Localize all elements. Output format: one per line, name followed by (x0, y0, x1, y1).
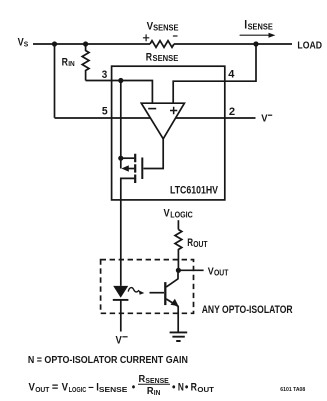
transistor M1 body stub (127, 168, 134, 170)
optical coupling squiggle (128, 288, 139, 292)
svg-text:SENSE: SENSE (99, 385, 128, 394)
svg-text:LOGIC: LOGIC (69, 385, 87, 394)
svg-text:•: • (185, 382, 189, 394)
wire VLOGIC lead (177, 220, 179, 229)
op-amp U1 triangle (141, 103, 184, 139)
svg-text:LTC6101HV: LTC6101HV (170, 185, 218, 197)
wire LED cathode to V- (120, 300, 122, 332)
wire left rail from VS node down to V- rail (54, 44, 56, 118)
svg-text:6101 TA08: 6101 TA08 (280, 387, 306, 393)
LED D1 cathode bar (113, 299, 129, 301)
svg-text:R: R (191, 382, 197, 394)
wire op-amp output to MOSFET gate (144, 138, 164, 169)
wire VOUT (178, 269, 203, 271)
wire top rail from VS to RSENSE (33, 43, 150, 45)
svg-text:2: 2 (229, 106, 235, 118)
svg-text:V: V (164, 208, 171, 220)
transistor M1 drain stub (121, 157, 134, 159)
current arrow ISENSE line (240, 35, 270, 36)
svg-text:N: N (178, 382, 184, 394)
junction dot ISENSE/pin4 (253, 41, 258, 46)
ground (170, 332, 188, 341)
polarity plus RSENSE (143, 34, 149, 41)
op-amp plus sign (170, 107, 177, 114)
svg-text:•: • (172, 382, 176, 394)
svg-text:IN: IN (68, 59, 75, 68)
transistor M1 body arrow (121, 165, 128, 171)
svg-text:5: 5 (102, 105, 108, 117)
svg-text:R: R (187, 237, 193, 249)
resistor RSENSE (150, 41, 174, 48)
svg-text:3: 3 (102, 69, 108, 81)
junction dot VOUT node (176, 268, 181, 273)
transistor Q1 collector (166, 270, 178, 287)
junction dot MOSFET drain (118, 156, 123, 161)
transistor Q1 emitter (166, 299, 178, 332)
svg-text:SENSE: SENSE (248, 22, 274, 31)
resistor RIN (82, 44, 89, 81)
svg-text:V: V (116, 335, 123, 347)
junction dot RIN branch (83, 41, 88, 46)
transistor M1 source stub and wire down to LED anode (121, 178, 134, 286)
svg-text:S: S (24, 39, 29, 48)
svg-text:=: = (52, 382, 58, 394)
junction dot pin3 node (118, 78, 123, 83)
opto-isolator dashed box (101, 260, 194, 314)
svg-text:V: V (261, 114, 268, 125)
svg-text:LOGIC: LOGIC (170, 211, 193, 220)
junction dot VS/left-rail (52, 41, 57, 46)
wire op-amp plus to pin 4 and up to ISENSE node (173, 44, 256, 103)
transistor M1 channel bar (134, 154, 136, 183)
svg-text:ANY OPTO-ISOLATOR: ANY OPTO-ISOLATOR (202, 304, 293, 316)
wire top rail from RSENSE to LOAD (174, 43, 292, 45)
polarity minus RSENSE (173, 35, 178, 36)
resistor ROUT (175, 230, 182, 271)
optical coupling arrow head (139, 290, 145, 294)
transistor M1 gate bar (141, 158, 143, 180)
op-amp minus sign (148, 108, 156, 110)
transistor Q1 base bar (164, 282, 166, 305)
svg-text:SENSE: SENSE (145, 376, 169, 385)
wire pin 3 input to op-amp minus (86, 81, 153, 104)
svg-text:R: R (146, 51, 152, 63)
svg-text:OUT: OUT (214, 268, 228, 277)
svg-text:R: R (62, 57, 69, 69)
LED D1 triangle (113, 286, 128, 298)
svg-text:OUT: OUT (193, 240, 207, 249)
svg-text:4: 4 (228, 68, 235, 80)
svg-text:LOAD: LOAD (297, 40, 322, 51)
transistor Q1 emitter arrow (171, 299, 179, 307)
svg-text:•: • (132, 382, 136, 394)
svg-text:V: V (208, 266, 214, 277)
svg-text:–: – (88, 382, 94, 394)
svg-text:SENSE: SENSE (153, 23, 179, 32)
IC U1 LTC6101HV box (112, 66, 225, 200)
svg-text:OUT: OUT (197, 385, 214, 394)
wire pin3 node down to MOSFET drain/body (120, 81, 122, 169)
svg-text:IN: IN (154, 388, 161, 397)
formula VOUT = VLOGIC - ISENSE * RSENSE/RIN * N * ROUT (29, 374, 215, 397)
svg-text:OUT: OUT (35, 385, 50, 394)
svg-text:N = OPTO-ISOLATOR CURRENT GAIN: N = OPTO-ISOLATOR CURRENT GAIN (28, 355, 188, 366)
transistor Q1 base lead (150, 292, 165, 294)
svg-text:V: V (18, 36, 24, 48)
current arrow ISENSE head (269, 33, 276, 38)
wire V- rail pins 5 and 2 (55, 117, 256, 119)
svg-text:SENSE: SENSE (153, 54, 179, 63)
